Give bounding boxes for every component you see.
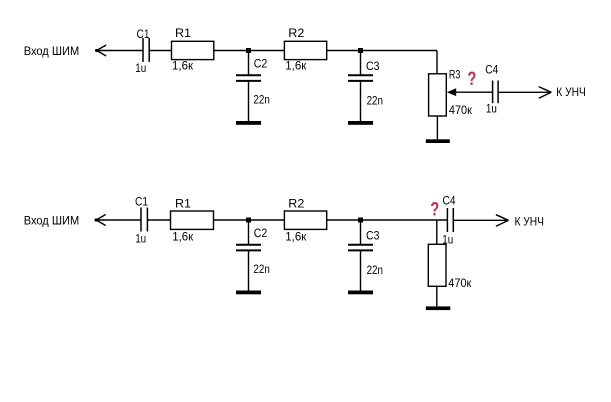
wire: R2 to node B (top): [327, 50, 361, 52]
capacitor C4 (bottom): [447, 208, 453, 232]
svg-text:?: ?: [430, 198, 439, 220]
output arrow (bottom): [496, 215, 509, 227]
wire: R2 to node B (bottom): [327, 219, 361, 221]
R3 wiper arrow (top): [447, 88, 456, 96]
svg-text:К УНЧ: К УНЧ: [556, 85, 586, 99]
svg-text:1u: 1u: [486, 102, 497, 116]
capacitor C3 (top): [348, 75, 373, 81]
wire: node A to R2 (bottom): [249, 219, 285, 221]
wire: C4 to output arrow (bottom): [453, 219, 507, 221]
svg-text:22n: 22n: [253, 262, 269, 276]
wire: node B to corner (top): [361, 50, 438, 52]
svg-text:Вход ШИМ: Вход ШИМ: [24, 44, 79, 58]
svg-text:R1: R1: [175, 197, 191, 211]
junction node B (top): [358, 48, 363, 53]
ground (resistor, bottom): [426, 306, 451, 310]
wire: C3 to ground (top): [360, 82, 362, 122]
svg-text:1,6к: 1,6к: [172, 229, 194, 243]
wire: node A to R2 (top): [249, 50, 285, 52]
output arrow (top): [539, 87, 552, 99]
junction node A (bottom): [246, 218, 251, 223]
svg-text:1u: 1u: [135, 61, 146, 75]
wire: input to C1 (bottom): [96, 219, 141, 221]
svg-text:К УНЧ: К УНЧ: [515, 215, 545, 229]
wire: C3 to ground (bottom): [360, 251, 362, 291]
capacitor C1 (top): [143, 38, 149, 62]
input arrow (top): [95, 45, 106, 56]
wire: C1 to R1 (top): [149, 50, 171, 52]
wire: wiper to C4 (top): [456, 91, 493, 93]
wire: node A down to C2 (bottom): [248, 220, 250, 244]
svg-text:22n: 22n: [367, 94, 383, 108]
wire: C2 to ground (top): [248, 82, 250, 122]
svg-text:1,6к: 1,6к: [285, 59, 307, 73]
resistor 470к (bottom): [428, 244, 446, 286]
input arrow (bottom): [95, 215, 106, 226]
wire: input to C1 (top): [97, 50, 143, 52]
svg-text:22n: 22n: [253, 93, 269, 107]
svg-text:?: ?: [467, 68, 476, 90]
ground (C2, bottom): [236, 291, 261, 295]
wire: R1 to node A (bottom): [214, 219, 249, 221]
svg-text:470к: 470к: [448, 276, 472, 290]
capacitor C2 (top): [236, 75, 261, 81]
wire: node B down to C3 (top): [360, 51, 362, 75]
resistor R1 (bottom): [171, 211, 214, 229]
svg-text:C2: C2: [254, 226, 268, 240]
svg-text:R1: R1: [175, 26, 191, 40]
potentiometer R3 (top): [429, 74, 447, 116]
wire: node B to C4 (bottom): [361, 219, 448, 221]
svg-text:1u: 1u: [442, 232, 453, 246]
svg-text:C4: C4: [485, 62, 498, 76]
wire: corner down to R3 (top): [436, 51, 438, 74]
ground (C3, top): [348, 121, 373, 125]
svg-text:R2: R2: [288, 26, 304, 40]
ground (C2, top): [236, 121, 261, 125]
svg-text:C3: C3: [366, 228, 380, 242]
svg-text:1,6к: 1,6к: [172, 59, 194, 73]
svg-text:R3: R3: [449, 67, 461, 81]
svg-text:C3: C3: [366, 59, 380, 73]
wire: R1 to node A (top): [214, 50, 249, 52]
svg-text:Вход ШИМ: Вход ШИМ: [24, 214, 79, 228]
resistor R2 (bottom): [284, 211, 326, 229]
svg-text:R2: R2: [288, 197, 304, 211]
svg-text:470к: 470к: [449, 103, 473, 117]
capacitor C3 (bottom): [348, 245, 373, 251]
capacitor C4 (top): [493, 81, 499, 104]
wire: C4 to output arrow (top): [498, 91, 550, 93]
wire: R3 to ground (top): [436, 116, 438, 139]
wire: node B down to C3 (bottom): [360, 220, 362, 244]
capacitor C1 (bottom): [141, 208, 147, 232]
resistor R1 (top): [172, 41, 214, 59]
ground (R3, top): [426, 139, 450, 143]
junction node A (top): [246, 48, 251, 53]
junction node B (bottom): [358, 218, 363, 223]
svg-text:C1: C1: [137, 27, 150, 41]
ground (C3, bottom): [348, 291, 373, 295]
wire: node down to R (bottom): [436, 220, 438, 244]
svg-text:22n: 22n: [367, 263, 383, 277]
svg-text:1,6к: 1,6к: [285, 229, 307, 243]
svg-text:C4: C4: [443, 193, 456, 207]
svg-text:C1: C1: [135, 194, 148, 208]
wire: node A down to C2 (top): [248, 51, 250, 75]
resistor R2 (top): [284, 41, 326, 59]
wire: C1 to R1 (bottom): [147, 219, 170, 221]
capacitor C2 (bottom): [236, 245, 261, 251]
svg-text:1u: 1u: [135, 232, 146, 246]
wire: C2 to ground (bottom): [248, 251, 250, 291]
wire: resistor to ground (bottom): [436, 286, 438, 306]
svg-text:C2: C2: [254, 57, 268, 71]
